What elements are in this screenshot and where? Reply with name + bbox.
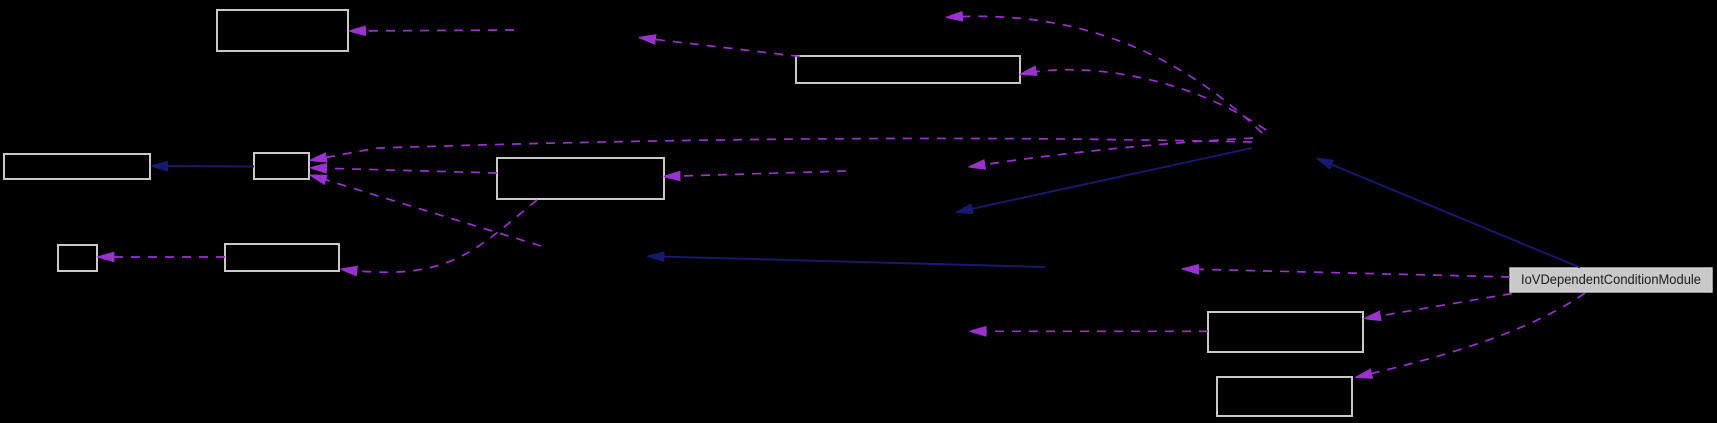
dashed edge: box G to box F <box>98 256 226 258</box>
dashed edge: hidden node N1 to box A <box>349 30 514 31</box>
node box H (bottom-right, label invisible) <box>1208 312 1363 352</box>
dashed edge: box B to hidden node N1 <box>639 38 800 57</box>
dashed edge: hidden node N2 to hidden top node (arrow at 946,17) <box>946 16 1262 133</box>
node box C (left, label invisible) <box>4 154 150 179</box>
node box B (top-middle, label invisible) <box>796 56 1020 83</box>
solid blue edge: hidden node N2 to hidden node Nblue <box>956 148 1252 212</box>
dashed edge: box H to hidden node N6 <box>970 330 1209 332</box>
solid blue edge: IoVDependentConditionModule to hidden node N2 <box>1317 158 1581 267</box>
solid blue edge: hidden node N5 to hidden node N4 <box>648 256 1046 267</box>
node box D (small, label invisible) <box>254 153 309 179</box>
node box E (middle, label invisible) <box>497 158 664 199</box>
dashed edge: hidden node N3 to box E <box>664 171 847 177</box>
dashed edge: hidden node N2 to box B <box>1020 70 1266 130</box>
svg-text:IoVDependentConditionModule: IoVDependentConditionModule <box>1521 271 1701 287</box>
node box A (top-left, label invisible) <box>217 10 348 51</box>
dashed edge: hidden node N4 to box D <box>310 175 541 246</box>
dashed edge: box E to box G <box>341 200 538 272</box>
node box F (small bottom-left, label invisible) <box>58 245 97 271</box>
dashed edge: IoVDependentConditionModule to box I <box>1356 293 1586 377</box>
dashed edge: IoVDependentConditionModule to hidden node N5 <box>1182 269 1510 277</box>
solid blue edge: box D to box C <box>151 165 254 168</box>
node box I (bottom-right lower, label invisible) <box>1217 377 1352 416</box>
node box G (bottom-left, label invisible) <box>225 244 339 271</box>
highlighted node IoVDependentConditionModule <box>1510 268 1712 292</box>
dashed edge: hidden node N2 to box D (long) <box>310 138 1252 160</box>
dashed edge: IoVDependentConditionModule to box H <box>1364 294 1512 319</box>
dashed edge: box E to box D <box>310 168 497 173</box>
dashed edge: hidden node N2 to hidden node N3 <box>969 138 1254 167</box>
